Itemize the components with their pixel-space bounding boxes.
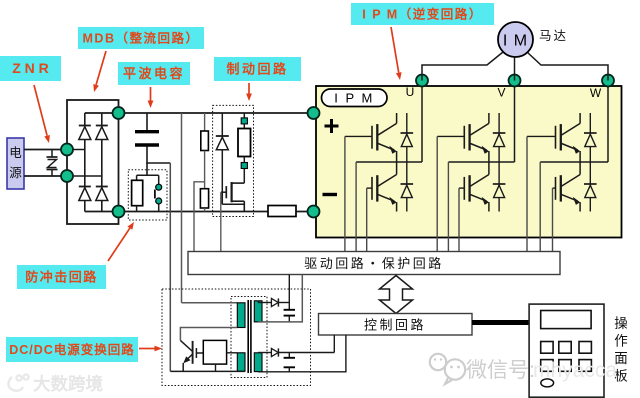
svg-text:马达: 马达 bbox=[539, 29, 568, 43]
wire N bus rail (bottom DC) right part bbox=[296, 211, 600, 213]
rectifier bridge MDB outline bbox=[67, 100, 119, 224]
transistor QW upper IGBT bbox=[527, 113, 580, 162]
wire W lower gate to drive bbox=[552, 188, 554, 251]
control circuit box 控制回路 bbox=[319, 314, 473, 336]
capacitor C control supply bbox=[284, 353, 295, 372]
transistor QU lower IGBT bbox=[367, 162, 397, 212]
wire AC line 1 bbox=[24, 149, 67, 151]
node W bbox=[602, 75, 614, 87]
label operation panel 操作面板 bbox=[614, 316, 628, 384]
wire inrush T junction bbox=[137, 174, 159, 176]
IPM inverter module box bbox=[316, 86, 622, 238]
resistor R divider upper bbox=[201, 113, 209, 189]
wire W upper gate to drive bbox=[526, 136, 528, 251]
transformer secondary 1 bar bbox=[254, 301, 262, 322]
wire divider tap to drive circuit bbox=[194, 182, 205, 252]
wire secondary1 return bbox=[258, 275, 302, 322]
arrow anti-inrush callout bbox=[108, 222, 134, 261]
svg-text:I P M: I P M bbox=[334, 91, 374, 106]
wire AC2 to right column bbox=[67, 175, 102, 177]
wire V lower gate to drive bbox=[458, 188, 460, 251]
relay contact S1 bbox=[155, 175, 162, 211]
wire AC line 2 bbox=[24, 175, 67, 177]
wire phase V midpoint rail bbox=[448, 161, 514, 163]
resistor R brake bbox=[238, 113, 251, 183]
node AC input 2 bbox=[61, 170, 73, 182]
wire bridge left leg column bbox=[84, 113, 86, 212]
wire bridge top bus bbox=[85, 112, 119, 114]
svg-text:I M: I M bbox=[503, 33, 528, 50]
diode D rectifier secondary1 bbox=[258, 298, 289, 306]
wire cap-bottom feed down to DCDC bbox=[169, 163, 171, 371]
diode DV lower freewheel bbox=[493, 162, 506, 212]
svg-text:微信号:: 微信号: bbox=[466, 359, 535, 382]
wire drive supply up bbox=[288, 275, 290, 303]
transformer secondary 2 bar bbox=[254, 353, 262, 372]
svg-text:控制回路: 控制回路 bbox=[364, 318, 426, 333]
label DC/DC converter bbox=[6, 337, 138, 362]
transformer aux winding bar bbox=[237, 353, 245, 371]
transistor Q brake (MOSFET) bbox=[221, 182, 245, 212]
label smoothing capacitor bbox=[118, 62, 190, 85]
panel button r1c1 bbox=[541, 342, 553, 354]
wire motor W lead bbox=[527, 52, 608, 81]
PWM controller box U1 bbox=[203, 340, 237, 371]
wire P rail feed down to DCDC primary bbox=[181, 113, 183, 303]
svg-text:mhyacca: mhyacca bbox=[533, 359, 617, 382]
transistor QV upper IGBT bbox=[437, 113, 489, 162]
transistor QV lower IGBT bbox=[459, 162, 489, 212]
resistor R divider lower bbox=[200, 189, 208, 212]
resistor R shunt on N rail bbox=[268, 206, 296, 217]
wire primary top feed bbox=[182, 302, 238, 304]
wire V emitter sense to drive bbox=[447, 162, 449, 252]
arrow ZNR callout bbox=[34, 85, 50, 143]
wire W emitter sense to drive bbox=[539, 162, 541, 252]
resistor R inrush bbox=[132, 175, 143, 211]
transformer primary winding bar bbox=[237, 303, 245, 328]
svg-text:DC/DC电源变换回路: DC/DC电源变换回路 bbox=[9, 342, 135, 357]
anti-inrush circuit dashed box 防冲击回路 bbox=[128, 170, 167, 220]
operation panel body bbox=[529, 304, 604, 397]
svg-text:U: U bbox=[406, 85, 415, 99]
power source box 电源 bbox=[7, 138, 24, 189]
diode DU upper freewheel bbox=[401, 113, 414, 162]
panel button r2c2 bbox=[559, 360, 571, 372]
wire phase U output vertical bbox=[421, 81, 423, 163]
plus terminal symbol bbox=[325, 119, 339, 133]
label anti-inrush circuit bbox=[17, 265, 106, 289]
watermark wechat icon bbox=[430, 354, 465, 384]
node N (-) bbox=[308, 206, 320, 218]
svg-text:平波电容: 平波电容 bbox=[123, 66, 185, 81]
wire thick link to operation panel bbox=[472, 320, 530, 325]
label IPM inverter bbox=[351, 3, 494, 25]
wire U lower gate to drive bbox=[366, 188, 368, 251]
wire secondary2 return bbox=[258, 335, 346, 372]
diode DV upper freewheel bbox=[493, 113, 506, 162]
diode D2 (bridge) bbox=[96, 126, 108, 140]
diode DW upper freewheel bbox=[584, 113, 597, 162]
node P (+) bbox=[308, 107, 320, 119]
svg-text:电: 电 bbox=[9, 146, 22, 160]
wire phase W output vertical bbox=[607, 81, 609, 163]
svg-text:作: 作 bbox=[614, 334, 628, 349]
node AC input 1 bbox=[61, 144, 73, 156]
wire AC1 to left column bbox=[67, 149, 85, 151]
label braking circuit bbox=[214, 57, 301, 81]
varistor ZNR bbox=[47, 150, 58, 177]
braking circuit dashed box 制动回路 bbox=[213, 105, 254, 216]
node V bbox=[509, 75, 521, 87]
DC/DC converter dashed box bbox=[162, 289, 311, 386]
wire brake gate to drive circuit bbox=[220, 192, 222, 251]
wire U emitter sense to drive bbox=[355, 162, 357, 252]
diode D rectifier secondary2 bbox=[258, 348, 334, 356]
arrow IPM callout bbox=[391, 27, 402, 80]
wire P bus rail (top DC) bbox=[119, 112, 591, 114]
bidirectional block arrow bbox=[380, 276, 413, 314]
diode DW lower freewheel bbox=[584, 162, 597, 212]
transformer core lines bbox=[248, 300, 251, 373]
svg-text:MDB（整流回路）: MDB（整流回路） bbox=[83, 31, 200, 46]
svg-text:防冲击回路: 防冲击回路 bbox=[25, 270, 98, 285]
wire primary bottom to switch collector bbox=[180, 328, 237, 341]
transistor QW lower IGBT bbox=[553, 162, 581, 212]
wire motor V lead bbox=[514, 57, 516, 81]
wire U upper gate to drive bbox=[344, 136, 346, 251]
panel oval key bbox=[541, 379, 554, 387]
arrow MDB callout bbox=[93, 51, 106, 92]
wire control supply up bbox=[333, 335, 335, 353]
drive/protect circuit box 驱动回路保护回路 bbox=[188, 252, 560, 275]
diode D4 (bridge) bbox=[96, 187, 108, 201]
wire motor U lead bbox=[422, 52, 503, 81]
svg-text:驱动回路・保护回路: 驱动回路・保护回路 bbox=[304, 256, 444, 271]
diode D brake bbox=[216, 113, 245, 204]
arrow DC/DC callout bbox=[139, 346, 162, 352]
wire capacitor bottom tap to DCDC feed bbox=[146, 162, 170, 164]
wire bridge right leg column bbox=[101, 113, 103, 212]
wire V upper gate to drive bbox=[436, 136, 438, 251]
minus terminal symbol bbox=[323, 193, 338, 196]
node U bbox=[416, 75, 428, 87]
IPM name capsule bbox=[322, 89, 388, 107]
svg-text:制动回路: 制动回路 bbox=[226, 62, 288, 77]
arrow capacitor callout bbox=[148, 87, 154, 108]
diode D3 (bridge) bbox=[79, 187, 91, 201]
capacitor C drive supply bbox=[284, 303, 295, 322]
panel button r2c3 bbox=[579, 360, 591, 372]
capacitor C1 smoothing 平波电容 bbox=[135, 113, 159, 175]
wire phase V output vertical bbox=[514, 81, 516, 163]
watermark bottom-left logo bbox=[8, 374, 28, 390]
wire bridge bottom bus bbox=[85, 211, 119, 213]
panel button r1c2 bbox=[559, 342, 571, 354]
panel button r2c1 bbox=[541, 360, 553, 372]
svg-text:大数跨境: 大数跨境 bbox=[33, 374, 103, 394]
diode DU lower freewheel bbox=[401, 162, 414, 212]
svg-text:V: V bbox=[497, 86, 505, 100]
wire phase U midpoint rail bbox=[356, 161, 422, 163]
svg-text:I P M（逆变回路）: I P M（逆变回路） bbox=[362, 7, 482, 22]
node bridge P output bbox=[113, 107, 125, 119]
diode D1 (bridge) bbox=[79, 126, 91, 140]
svg-text:源: 源 bbox=[9, 166, 22, 180]
transistor Q switch (DC/DC) bbox=[180, 340, 203, 371]
svg-text:Z N R: Z N R bbox=[12, 60, 49, 76]
panel display screen bbox=[541, 311, 591, 329]
node bridge N output bbox=[113, 206, 125, 218]
label ZNR bbox=[0, 56, 61, 81]
transformer dotted box bbox=[231, 297, 267, 378]
motor IM bbox=[498, 22, 533, 57]
wire N bus rail (bottom DC) left part bbox=[119, 211, 269, 213]
wire DCDC bottom return bbox=[170, 370, 245, 372]
svg-text:操: 操 bbox=[614, 316, 628, 331]
wire phase W midpoint rail bbox=[540, 161, 608, 163]
panel button r1c3 bbox=[579, 342, 591, 354]
svg-text:W: W bbox=[590, 86, 602, 100]
transistor QU upper IGBT bbox=[345, 113, 397, 162]
label MDB rectifier bbox=[78, 27, 204, 49]
arrow braking callout bbox=[246, 83, 252, 101]
